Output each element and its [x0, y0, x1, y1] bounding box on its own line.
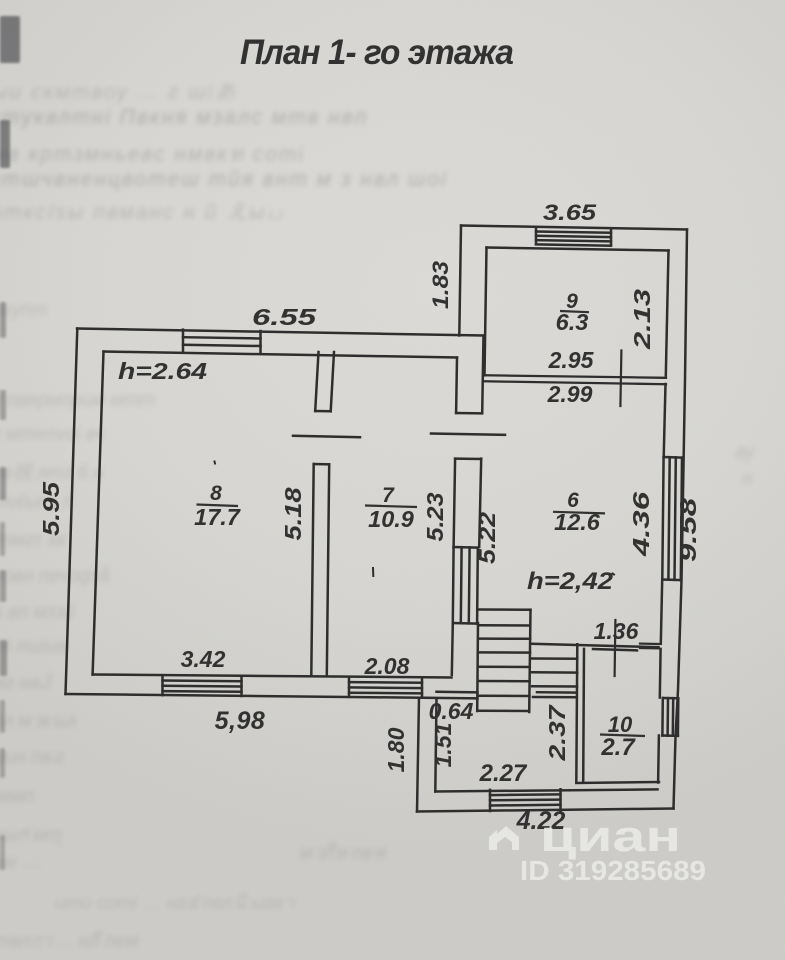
svg-text:5.23: 5.23	[422, 492, 448, 541]
svg-text:9.58: 9.58	[675, 498, 701, 562]
svg-text:5.22: 5.22	[474, 512, 500, 564]
svg-text:2.27: 2.27	[479, 760, 528, 787]
svg-text:ID 319285689: ID 319285689	[520, 855, 706, 886]
svg-text:План 1- го этажа: План 1- го этажа	[240, 33, 514, 72]
svg-text:h=2.64: h=2.64	[118, 358, 207, 384]
svg-text:6.55: 6.55	[252, 304, 318, 330]
svg-text:0.64: 0.64	[429, 698, 474, 724]
svg-text:2.7: 2.7	[600, 734, 636, 761]
svg-text:5,98: 5,98	[215, 707, 266, 735]
svg-text:1.80: 1.80	[383, 727, 409, 772]
svg-text:2.99: 2.99	[547, 381, 593, 407]
svg-text:2.08: 2.08	[364, 653, 410, 679]
svg-text:5.95: 5.95	[38, 481, 64, 536]
svg-text:10.9: 10.9	[368, 506, 414, 532]
svg-text:1.36: 1.36	[594, 618, 639, 644]
svg-text:8: 8	[210, 482, 222, 505]
svg-text:4.36: 4.36	[628, 492, 654, 558]
svg-text:2.95: 2.95	[548, 347, 595, 373]
svg-text:17.7: 17.7	[194, 504, 241, 530]
svg-text:7: 7	[382, 484, 395, 507]
svg-text:1.51: 1.51	[430, 723, 456, 768]
svg-text:2.37: 2.37	[544, 704, 570, 762]
svg-text:3.65: 3.65	[543, 200, 597, 225]
svg-text:циан: циан	[540, 812, 681, 861]
svg-text:5.18: 5.18	[280, 487, 306, 540]
svg-text:3.42: 3.42	[181, 646, 226, 672]
svg-text:1.83: 1.83	[428, 261, 453, 309]
svg-text:h=2,42: h=2,42	[527, 568, 614, 595]
svg-text:2.13: 2.13	[629, 289, 655, 351]
